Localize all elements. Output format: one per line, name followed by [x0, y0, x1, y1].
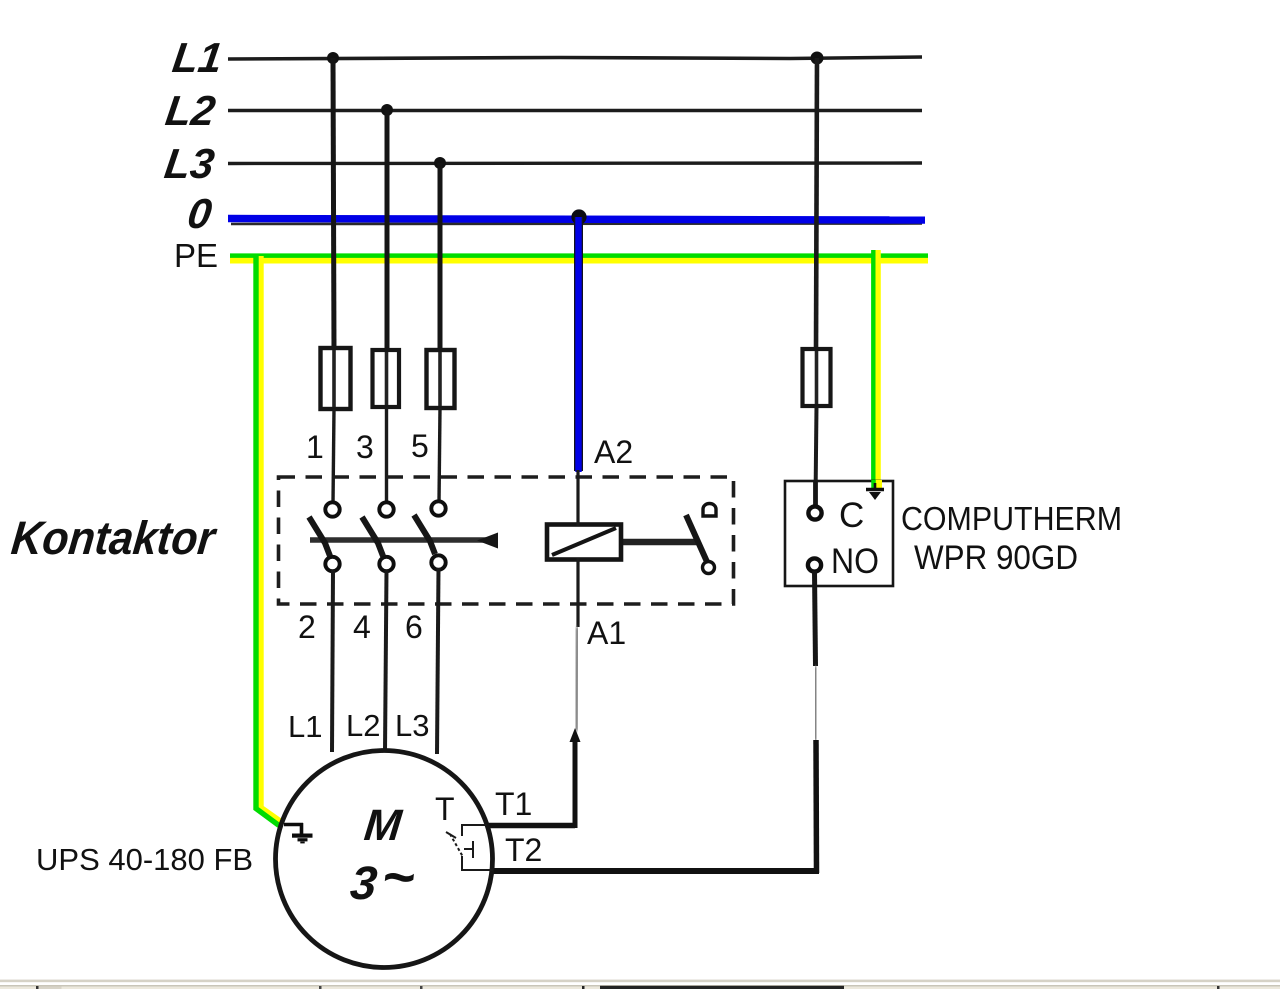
svg-text:L2: L2	[346, 708, 380, 743]
contactor pole 3 contact circles	[431, 501, 445, 515]
svg-text:Kontaktor: Kontaktor	[9, 511, 220, 564]
crossbar arrowhead	[477, 533, 498, 549]
svg-text:3: 3	[356, 429, 374, 465]
wire fuse F1 to contact 1	[333, 409, 334, 503]
PE arrow into thermostat	[866, 483, 884, 500]
wire contact 2 to motor	[332, 570, 333, 752]
svg-text:T1: T1	[495, 786, 532, 822]
wire L1 drop to fuse F4	[816, 58, 817, 351]
svg-text:A2: A2	[594, 434, 633, 470]
contactor pole 2 contact circles	[379, 502, 393, 516]
contactor pole 2 blade	[362, 517, 383, 556]
svg-text:L3: L3	[395, 708, 429, 743]
armature pivot circle	[703, 562, 715, 574]
fuse F3	[427, 350, 455, 408]
armature blade	[686, 515, 708, 564]
contactor pole 1 contact circles	[325, 502, 339, 516]
contactor pole 1 blade	[309, 517, 330, 556]
wire L3 drop	[438, 163, 443, 352]
wire into terminal C	[813, 482, 818, 508]
svg-text:5: 5	[411, 428, 429, 464]
svg-text:~: ~	[379, 845, 418, 908]
svg-text:L1: L1	[170, 34, 226, 81]
svg-text:T2: T2	[505, 832, 542, 868]
svg-text:L1: L1	[288, 709, 322, 744]
wire T1 to A1	[486, 823, 575, 829]
thermostat enclosure	[785, 481, 893, 586]
svg-text:WPR 90GD: WPR 90GD	[914, 539, 1078, 577]
motor M circle	[276, 751, 493, 968]
node L2 tap dot	[381, 104, 393, 116]
wire PE drop right (green/yellow)	[875, 250, 881, 480]
fuse F4	[803, 349, 831, 406]
wire fuse F4 to terminal C	[816, 406, 817, 500]
wire contact 4 to motor	[385, 570, 387, 752]
wire fuse F2 to contact 3	[385, 407, 388, 503]
svg-text:A1: A1	[587, 615, 626, 651]
bus L3	[228, 161, 922, 165]
svg-text:PE: PE	[174, 237, 218, 274]
svg-text:4: 4	[353, 609, 371, 645]
wire fuse F3 to contact 5	[439, 408, 440, 502]
contactor mechanical crossbar	[310, 535, 497, 546]
status bar	[0, 980, 1280, 989]
bus PE yellow stripe	[230, 258, 928, 264]
bus L1	[228, 57, 922, 59]
svg-text:6: 6	[405, 609, 423, 645]
crossbar link to armature	[622, 539, 697, 546]
svg-text:NO: NO	[831, 542, 879, 581]
svg-text:1: 1	[306, 429, 324, 465]
svg-text:T: T	[435, 791, 455, 827]
wire NO to T2 (upper)	[815, 571, 816, 666]
wire PE tail inside thermostat	[875, 480, 882, 488]
wire L1 drop	[333, 58, 334, 351]
wire A1 below coil	[576, 558, 579, 627]
bus L2	[228, 108, 922, 112]
contactor pole 3 blade	[414, 515, 435, 554]
svg-text:C: C	[839, 496, 864, 535]
svg-text:UPS 40-180 FB: UPS 40-180 FB	[36, 842, 253, 877]
wire PE drop left (green/yellow)	[261, 256, 283, 823]
node 0 tap dot	[571, 209, 586, 224]
svg-text:COMPUTHERM: COMPUTHERM	[901, 500, 1122, 537]
PE earth arrow at motor frame	[284, 823, 313, 843]
svg-text:3: 3	[348, 856, 380, 909]
svg-text:L3: L3	[162, 140, 218, 187]
contactor dashed enclosure	[279, 477, 734, 604]
svg-text:L2: L2	[163, 87, 219, 134]
A1 junction arrowhead	[570, 728, 581, 742]
node L1 tap dot	[327, 52, 339, 64]
svg-text:M: M	[362, 801, 405, 850]
terminal NO	[808, 558, 821, 571]
fuse F1	[321, 348, 351, 409]
wire L2 drop	[385, 110, 390, 352]
terminal C	[808, 506, 821, 519]
wire T2 horizontal	[492, 868, 819, 874]
thermal contact T	[446, 824, 493, 871]
wire contact 6 to motor	[437, 568, 439, 754]
bus 0 black underline	[231, 222, 922, 225]
bus 0 (neutral, blue)	[228, 219, 925, 221]
armature stop (D shape)	[703, 504, 716, 517]
coil K1	[547, 525, 621, 560]
node L1 right tap dot	[811, 52, 824, 65]
svg-text:2: 2	[298, 609, 316, 645]
node L3 tap dot	[434, 157, 446, 169]
fuse F2	[373, 350, 400, 407]
wire A2 (black) into coil	[576, 470, 579, 526]
wire neutral drop (blue) to coil A2	[574, 217, 583, 471]
bus PE green stripe	[230, 253, 928, 258]
